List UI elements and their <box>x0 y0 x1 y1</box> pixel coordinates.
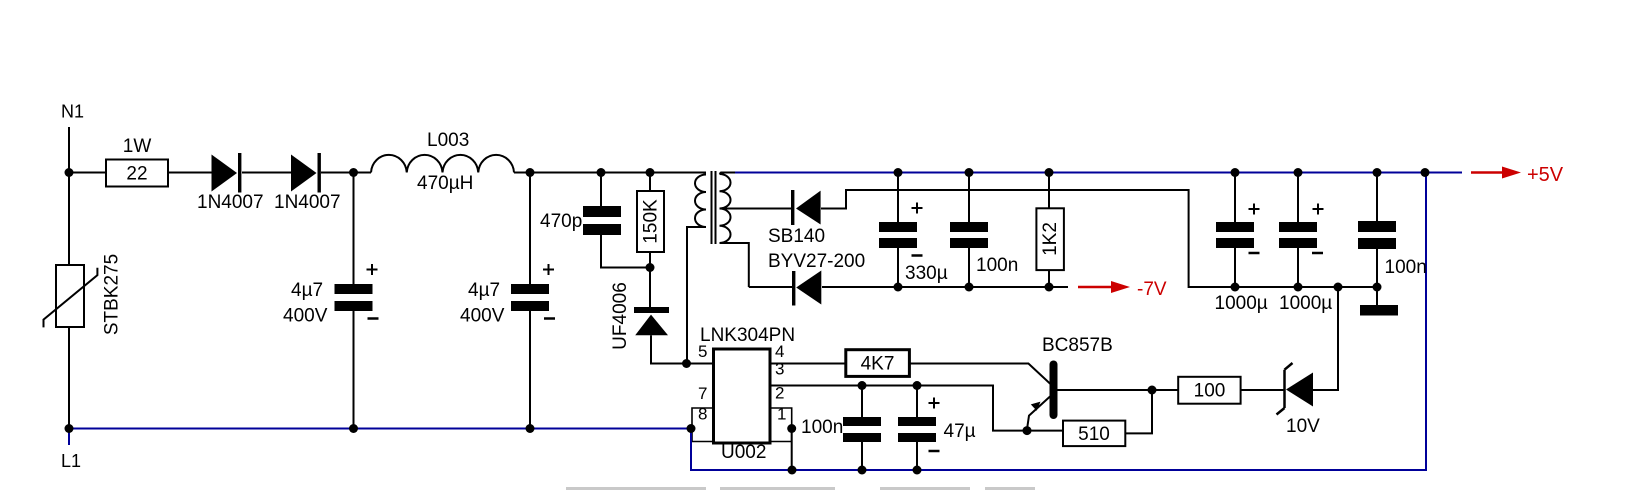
svg-text:22: 22 <box>126 164 147 185</box>
svg-text:510: 510 <box>1078 424 1110 445</box>
capacitor 330u <box>879 222 917 248</box>
svg-text:400V: 400V <box>283 306 328 327</box>
svg-text:1: 1 <box>777 405 786 424</box>
wire 150K top <box>649 173 651 192</box>
transistor Q1 BC857B base bar <box>1050 361 1058 420</box>
wire secondary top lead <box>720 173 736 175</box>
1000u A minus sign <box>1249 252 1260 255</box>
svg-text:150K: 150K <box>641 199 662 244</box>
svg-text:470p: 470p <box>540 211 582 232</box>
resistor 150K box <box>637 191 664 252</box>
wire primary bottom tail <box>687 227 706 364</box>
svg-text:470µH: 470µH <box>417 173 473 194</box>
svg-text:5: 5 <box>698 342 707 361</box>
svg-text:1N4007: 1N4007 <box>197 192 264 213</box>
svg-text:4: 4 <box>775 342 784 361</box>
wire 100n right top <box>1376 173 1378 222</box>
diode D2 1N4007 <box>291 153 321 193</box>
capacitor 47u <box>898 417 936 442</box>
1000u A plus sign <box>1249 204 1260 215</box>
svg-text:4K7: 4K7 <box>861 354 895 375</box>
resistor 100 box <box>1178 377 1240 404</box>
svg-text:SB140: SB140 <box>768 226 825 247</box>
diode D1 1N4007 <box>212 153 242 193</box>
1000u B minus sign <box>1312 252 1323 255</box>
wire 470p bottom to 150K node <box>601 235 650 268</box>
blue L1 bottom rail <box>69 173 1462 471</box>
wire 1000u A bottom <box>1234 248 1236 287</box>
IC U002 LNK304PN body <box>714 349 771 443</box>
wire 100 to zener <box>1241 389 1284 391</box>
capacitor 1000u A <box>1216 222 1254 248</box>
blue +5V rail <box>735 172 1462 174</box>
zener diode 10V <box>1277 363 1314 415</box>
svg-text:L003: L003 <box>427 130 469 151</box>
wire 1K2 bottom <box>1048 270 1050 287</box>
svg-text:100n: 100n <box>976 255 1018 276</box>
svg-text:10V: 10V <box>1286 416 1320 437</box>
faint cropped text remnant at bottom <box>566 487 1035 490</box>
resistor 1K2 box <box>1036 208 1064 270</box>
svg-text:1000µ: 1000µ <box>1279 293 1332 314</box>
wire 100n right bottom <box>1376 249 1378 287</box>
svg-text:U002: U002 <box>721 442 766 463</box>
wire 150K bottom to UF4006 <box>649 252 651 307</box>
pin 8 tab <box>692 408 714 442</box>
wire 470p top <box>600 173 602 207</box>
wire secondary tap to SB140 <box>720 208 792 210</box>
wire 100n(sec) bottom <box>968 248 970 287</box>
47u minus sign <box>929 450 940 453</box>
transformer T1 secondary winding <box>720 174 731 243</box>
diode BYV27-200 <box>792 271 821 306</box>
svg-text:BYV27-200: BYV27-200 <box>768 251 865 272</box>
transformer T1 core <box>712 171 716 244</box>
wire top input rail <box>69 172 706 174</box>
wire 1K2 top <box>1048 173 1050 209</box>
wire 100n IC bottom <box>861 442 863 470</box>
wire 100n IC top <box>861 386 863 418</box>
svg-text:100n: 100n <box>1385 257 1427 278</box>
pin 1 tab <box>770 408 792 442</box>
wire pin3 feedback run <box>770 386 1063 431</box>
svg-text:8: 8 <box>698 405 707 424</box>
capacitor C2 4u7 400V <box>511 284 549 311</box>
wire 330u top <box>897 173 899 223</box>
wire 100n right stub to bar <box>1376 287 1378 305</box>
capacitor 100n at IC <box>843 417 881 442</box>
svg-text:4µ7: 4µ7 <box>291 280 323 301</box>
wire zener to 0V node <box>1313 287 1338 390</box>
C1 minus sign <box>368 317 379 320</box>
wire UF4006 anode to pin5 node <box>651 335 714 363</box>
wire SB140 anode up and right rail <box>821 190 1377 287</box>
blue output box border <box>691 173 1426 471</box>
svg-text:3: 3 <box>775 360 784 379</box>
resistor R1 22 1W box <box>106 160 168 187</box>
svg-text:-7V: -7V <box>1137 279 1167 300</box>
svg-text:100n: 100n <box>801 417 843 438</box>
wire cap C1 top <box>353 173 355 285</box>
wire 1000u A top <box>1234 173 1236 223</box>
330u plus sign <box>912 203 923 214</box>
inductor L003 <box>371 155 514 173</box>
wire 47u top <box>916 386 918 418</box>
plate bar below 100n right <box>1360 305 1398 316</box>
svg-text:7: 7 <box>698 384 707 403</box>
svg-text:BC857B: BC857B <box>1042 335 1113 356</box>
C1 plus sign <box>367 264 378 275</box>
wire 1000u B bottom <box>1297 248 1299 287</box>
svg-text:N1: N1 <box>61 102 84 122</box>
capacitor 100n secondary <box>950 222 988 248</box>
resistor 4K7 box <box>846 350 910 377</box>
wire BYV27 anode to -7V <box>749 286 1068 288</box>
capacitor 470p <box>583 206 621 235</box>
svg-text:STBK275: STBK275 <box>102 254 123 335</box>
svg-text:2: 2 <box>775 384 784 403</box>
svg-text:400V: 400V <box>460 306 505 327</box>
svg-text:L1: L1 <box>61 451 81 471</box>
wire cap C2 bottom <box>529 311 531 429</box>
wire secondary bottom lead <box>720 243 749 287</box>
varistor STBK275 <box>44 265 98 327</box>
wire pin1 drop <box>791 429 793 471</box>
svg-text:330µ: 330µ <box>905 263 948 284</box>
capacitor 100n right <box>1358 221 1396 249</box>
wire 47u bottom <box>916 442 918 470</box>
svg-text:47µ: 47µ <box>944 421 976 442</box>
wire pin4 to 4K7 to transistor base <box>770 364 1051 385</box>
wire 1000u B top <box>1297 173 1299 223</box>
wire 510 to collector node <box>1125 390 1152 433</box>
330u minus sign <box>912 254 923 257</box>
wire left vertical N1 to varistor <box>68 173 70 266</box>
47u plus sign <box>929 398 940 409</box>
svg-text:1W: 1W <box>123 136 152 157</box>
svg-text:1N4007: 1N4007 <box>274 192 341 213</box>
svg-text:100: 100 <box>1194 381 1226 402</box>
svg-text:1K2: 1K2 <box>1040 222 1061 256</box>
wire 100n(sec) top <box>968 173 970 223</box>
C2 minus sign <box>544 317 555 320</box>
svg-text:4µ7: 4µ7 <box>468 280 500 301</box>
capacitor C1 4u7 400V <box>335 284 373 311</box>
svg-text:+5V: +5V <box>1527 164 1564 186</box>
wire cap C2 top <box>529 173 531 285</box>
svg-text:1000µ: 1000µ <box>1215 293 1268 314</box>
wire N1 input stub <box>68 127 70 173</box>
wire varistor to L1 rail <box>68 327 70 429</box>
red -7V arrow <box>1078 281 1130 293</box>
svg-text:UF4006: UF4006 <box>610 282 631 350</box>
wire collector horizontal <box>1057 389 1178 391</box>
transistor Q1 emitter with arrow <box>1027 397 1050 431</box>
1000u B plus sign <box>1313 204 1324 215</box>
red +5V arrow <box>1471 167 1521 179</box>
diode SB140 <box>791 190 821 225</box>
capacitor 1000u B <box>1279 222 1317 248</box>
C2 plus sign <box>543 264 554 275</box>
resistor 510 box <box>1063 421 1125 447</box>
diode UF4006 <box>634 307 669 335</box>
transformer T1 primary winding <box>695 175 706 228</box>
wire cap C1 bottom <box>353 311 355 429</box>
blue L1 stub <box>68 429 70 446</box>
wire 330u bottom <box>897 248 899 287</box>
